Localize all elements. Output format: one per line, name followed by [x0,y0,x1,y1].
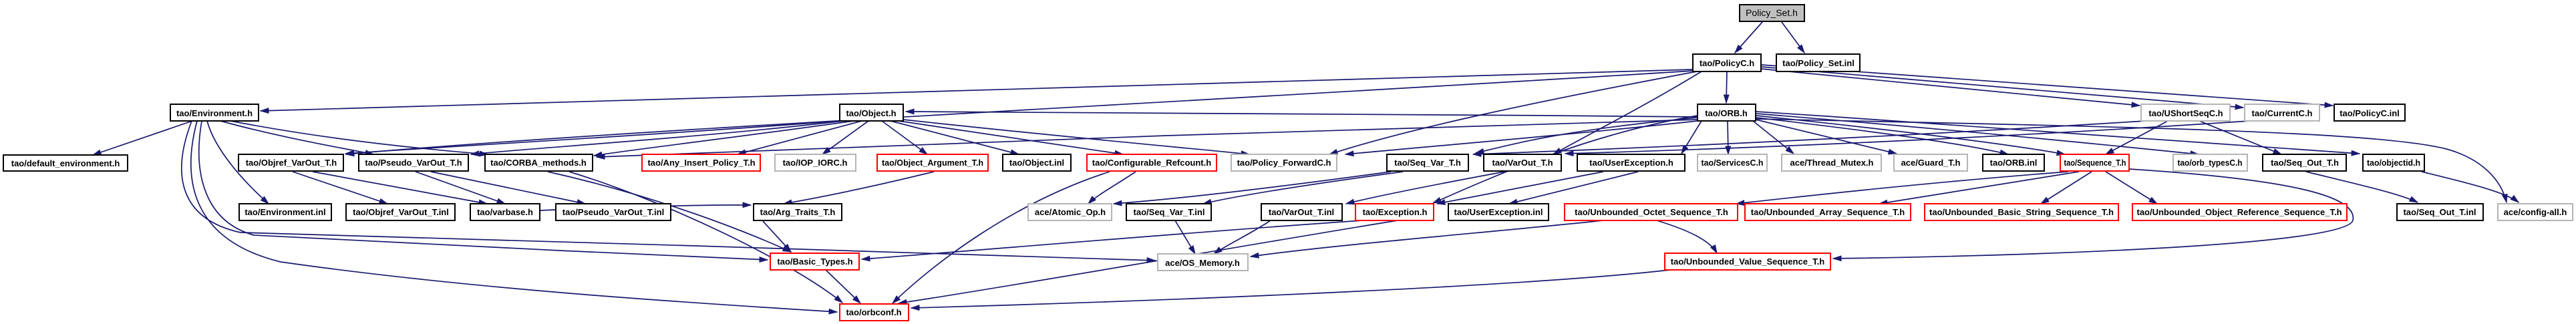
svg-text:tao/Exception.h: tao/Exception.h [1363,207,1428,217]
edge tao/UShortSeqC.h -> tao/Sequence_T.h [2106,121,2168,154]
svg-text:tao/VarOut_T.h: tao/VarOut_T.h [1492,158,1553,168]
svg-text:tao/Seq_Out_T.inl: tao/Seq_Out_T.inl [2403,207,2476,217]
svg-text:tao/Objref_VarOut_T.inl: tao/Objref_VarOut_T.inl [353,207,449,217]
edge tao/ORB.h -> ace/Thread_Mutex.h [1753,121,1794,154]
edge tao/Sequence_T.h -> tao/Unbounded_Basic_String_Sequence_T.h [2041,172,2092,204]
svg-text:tao/Objref_VarOut_T.h: tao/Objref_VarOut_T.h [246,158,337,168]
edge tao/UShortSeqC.h -> tao/Seq_Var_T.h [1473,121,2146,154]
svg-text:tao/Environment.inl: tao/Environment.inl [245,207,325,217]
edge tao/ORB.h -> tao/CORBA_methods.h [597,120,1698,157]
edge tao/Object.h -> tao/Object.inl [891,121,1019,154]
node tao/Seq_Var_T.h [1387,154,1468,171]
edge tao/Pseudo_VarOut_T.h -> tao/Pseudo_VarOut_T.inl [431,172,585,204]
edge tao/Objref_VarOut_T.h -> tao/Objref_VarOut_T.inl [293,172,387,204]
node tao/Object.h [840,104,903,121]
svg-text:tao/VarOut_T.inl: tao/VarOut_T.inl [1269,207,1334,217]
svg-text:tao/Unbounded_Octet_Sequence_T: tao/Unbounded_Octet_Sequence_T.h [1575,207,1728,217]
edge tao/Configurable_Refcount.h -> tao/orbconf.h [893,172,1110,303]
edge tao/PolicyC.h -> tao/CurrentC.h [1761,67,2243,108]
svg-text:tao/Unbounded_Value_Sequence_T: tao/Unbounded_Value_Sequence_T.h [1671,257,1824,267]
svg-text:tao/default_environment.h: tao/default_environment.h [11,158,120,168]
edge tao/ORB.h -> tao/Object.h [906,112,1698,117]
edge tao/Sequence_T.h -> tao/Unbounded_Object_Reference_Sequence_T.h [2106,172,2157,204]
node tao/VarOut_T.inl [1261,204,1342,220]
node tao/objectid.h [2363,154,2424,171]
edge tao/CurrentC.h -> tao/VarOut_T.h [1565,121,2250,154]
svg-text:tao/Object.inl: tao/Object.inl [1009,158,1064,168]
svg-text:tao/IOP_IORC.h: tao/IOP_IORC.h [783,158,848,168]
edge tao/PolicyC.h -> tao/PolicyC.inl [1761,65,2333,106]
svg-text:Policy_Set.h: Policy_Set.h [1746,7,1798,18]
edge tao/Seq_Out_T.h -> tao/Seq_Out_T.inl [2306,172,2418,202]
edge tao/Seq_Var_T.h -> ace/Atomic_Op.h [1114,172,1391,204]
edge tao/Unbounded_Octet_Sequence_T.h -> ace/OS_Memory.h [1251,220,1603,257]
node tao/Seq_Out_T.h [2263,154,2346,171]
node ace/config-all.h [2498,204,2573,220]
edge tao/ORB.h -> tao/Policy_ForwardC.h [1345,121,1698,154]
svg-text:ace/Atomic_Op.h: ace/Atomic_Op.h [1035,207,1106,217]
svg-text:tao/CurrentC.h: tao/CurrentC.h [2252,108,2313,118]
edge tao/Pseudo_VarOut_T.h -> tao/varbase.h [416,172,505,204]
svg-text:tao/PolicyC.h: tao/PolicyC.h [1700,58,1754,68]
edge tao/objectid.h -> ace/config-all.h [2422,172,2519,202]
node tao/PolicyC.h [1693,54,1761,71]
node ace/OS_Memory.h [1158,254,1248,271]
edge tao/ORB.h -> ace/config-all.h [1756,119,2507,202]
edge tao/Seq_Var_T.inl -> ace/OS_Memory.h [1175,220,1195,254]
edge tao/Objref_VarOut_T.h -> tao/varbase.h [313,172,487,204]
edge tao/Environment.h -> tao/Pseudo_VarOut_T.h [220,121,373,154]
edge tao/Environment.h -> tao/default_environment.h [93,121,192,155]
svg-text:tao/UserException.inl: tao/UserException.inl [1454,207,1543,217]
node tao/Configurable_Refcount.h [1087,154,1217,171]
node ace/Atomic_Op.h [1028,204,1112,220]
edge tao/Sequence_T.h -> tao/Unbounded_Array_Sequence_T.h [1879,172,2079,204]
svg-text:tao/Object_Argument_T.h: tao/Object_Argument_T.h [882,158,983,168]
edge tao/ORB.h -> tao/Sequence_T.h [1756,116,2065,154]
edge tao/Exception.h -> tao/Basic_Types.h [862,220,1363,259]
node tao/Policy_Set.inl [1776,54,1860,71]
node tao/Unbounded_Octet_Sequence_T.h [1565,204,1738,220]
node tao/Environment.inl [239,204,331,220]
node tao/CORBA_methods.h [485,154,593,171]
svg-text:tao/objectid.h: tao/objectid.h [2367,158,2420,168]
node tao/default_environment.h [3,155,128,171]
edge tao/Unbounded_Octet_Sequence_T.h -> tao/Unbounded_Value_Sequence_T.h [1657,220,1717,253]
edge tao/PolicyC.h -> tao/ORB.h [1726,71,1727,103]
node tao/ORB.h [1698,104,1756,121]
svg-text:tao/Seq_Out_T.h: tao/Seq_Out_T.h [2271,158,2339,168]
edge tao/varbase.h -> tao/Arg_Traits_T.h [540,205,751,210]
edge tao/ORB.h -> ace/Guard_T.h [1756,120,1897,154]
svg-text:tao/Unbounded_Basic_String_Seq: tao/Unbounded_Basic_String_Sequence_T.h [1929,207,2114,217]
node tao/Unbounded_Value_Sequence_T.h [1665,253,1830,270]
edge tao/VarOut_T.inl -> ace/OS_Memory.h [1214,220,1271,254]
edge tao/ORB.h -> tao/orb_typesC.h [1756,114,2199,154]
svg-text:tao/Configurable_Refcount.h: tao/Configurable_Refcount.h [1092,158,1211,168]
svg-text:tao/Environment.h: tao/Environment.h [176,108,253,118]
node tao/varbase.h [470,204,540,220]
node tao/Seq_Out_T.inl [2397,204,2483,220]
edge tao/Arg_Traits_T.h -> tao/Basic_Types.h [763,221,791,252]
edge tao/Exception.h -> tao/orbconf.h [899,220,1398,303]
svg-text:tao/Unbounded_Array_Sequence_T: tao/Unbounded_Array_Sequence_T.h [1751,207,1905,217]
edge tao/ORB.h -> tao/Exception.h [1433,116,1698,203]
node tao/Unbounded_Array_Sequence_T.h [1745,204,1911,220]
edge tao/UShortSeqC.h -> tao/Seq_Out_T.h [2199,121,2281,154]
edge tao/Object.h -> tao/Object_Argument_T.h [882,121,927,154]
edge tao/Environment.h -> tao/orbconf.h [191,121,837,312]
edge tao/Basic_Types.h -> tao/orbconf.h [826,270,860,303]
svg-text:tao/CORBA_methods.h: tao/CORBA_methods.h [490,158,587,168]
edge tao/Object.h -> tao/Configurable_Refcount.h [899,121,1123,154]
edge tao/PolicyC.h -> tao/Policy_ForwardC.h [1329,71,1697,154]
node tao/CurrentC.h [2245,104,2319,121]
edge tao/Object.h -> tao/CORBA_methods.h [594,121,854,156]
edge tao/Environment.h -> tao/Environment.inl [207,121,269,204]
edge tao/Unbounded_Value_Sequence_T.h -> tao/orbconf.h [911,270,1670,308]
edge tao/Object.h -> tao/Any_Insert_Policy_T.h [738,121,862,154]
node tao/Sequence_T.h [2060,154,2129,171]
node tao/Object.inl [1003,154,1071,171]
node Policy_Set.h (root) [1740,5,1804,21]
edge tao/Sequence_T.h -> tao/Unbounded_Value_Sequence_T.h [1833,169,2353,259]
node tao/Object_Argument_T.h [877,154,988,171]
edge tao/PolicyC.h -> tao/UShortSeqC.h [1761,69,2140,106]
edge tao/Object.h -> tao/Pseudo_VarOut_T.h [471,121,844,154]
node tao/Objref_VarOut_T.inl [346,204,455,220]
node tao/Unbounded_Object_Reference_Sequence_T.h [2132,204,2347,220]
node tao/UserException.inl [1448,204,1549,220]
svg-text:tao/orbconf.h: tao/orbconf.h [846,307,901,317]
node tao/Basic_Types.h [770,253,859,270]
node tao/Exception.h [1355,204,1434,220]
svg-text:tao/Any_Insert_Policy_T.h: tao/Any_Insert_Policy_T.h [647,158,755,168]
svg-text:tao/varbase.h: tao/varbase.h [477,207,533,217]
node tao/Pseudo_VarOut_T.h [359,154,468,171]
svg-text:tao/UShortSeqC.h: tao/UShortSeqC.h [2148,108,2223,118]
node tao/orbconf.h [840,304,909,321]
svg-text:tao/UserException.h: tao/UserException.h [1589,158,1673,168]
svg-text:tao/Policy_ForwardC.h: tao/Policy_ForwardC.h [1237,158,1331,168]
svg-text:tao/Basic_Types.h: tao/Basic_Types.h [777,257,852,267]
edge tao/PolicyC.h -> tao/Objref_VarOut_T.h [346,71,1693,154]
svg-text:tao/Seq_Var_T.inl: tao/Seq_Var_T.inl [1134,207,1205,217]
svg-text:tao/orb_typesC.h: tao/orb_typesC.h [2178,158,2243,168]
svg-text:tao/Object.h: tao/Object.h [846,108,896,118]
svg-text:ace/Guard_T.h: ace/Guard_T.h [1901,158,1961,168]
node tao/UShortSeqC.h [2141,104,2230,121]
svg-text:tao/ORB.inl: tao/ORB.inl [1990,158,2038,168]
node tao/orb_typesC.h [2173,154,2247,171]
svg-text:tao/PolicyC.inl: tao/PolicyC.inl [2340,108,2400,118]
svg-text:ace/OS_Memory.h: ace/OS_Memory.h [1165,258,1240,268]
edge tao/ORB.h -> tao/Seq_Var_T.h [1476,118,1698,153]
svg-text:tao/ORB.h: tao/ORB.h [1705,108,1748,118]
node tao/ORB.inl [1983,154,2044,171]
edge tao/Object.h -> tao/Policy_ForwardC.h [903,120,1249,154]
edge tao/Configurable_Refcount.h -> ace/Atomic_Op.h [1088,172,1136,204]
edge tao/Environment.h -> tao/CORBA_methods.h [230,121,488,154]
edge tao/CORBA_methods.h -> tao/orbconf.h [569,172,842,303]
node tao/Unbounded_Basic_String_Sequence_T.h [1925,204,2118,220]
node tao/Environment.h [170,104,259,121]
node tao/VarOut_T.h [1484,154,1561,171]
svg-text:tao/ServicesC.h: tao/ServicesC.h [1702,158,1764,168]
edge tao/VarOut_T.h -> tao/VarOut_T.inl [1346,172,1504,204]
edge tao/ORB.h -> tao/UserException.h [1681,121,1702,154]
node tao/Any_Insert_Policy_T.h [642,154,760,171]
edge tao/Object_Argument_T.h -> tao/Arg_Traits_T.h [784,172,934,204]
svg-text:ace/Thread_Mutex.h: ace/Thread_Mutex.h [1790,158,1874,168]
node tao/Arg_Traits_T.h [754,204,842,220]
node ace/Guard_T.h [1894,154,1967,171]
edge tao/UserException.h -> tao/Exception.h [1437,172,1603,204]
edge tao/PolicyC.h -> tao/VarOut_T.h [1553,71,1702,154]
svg-text:tao/Pseudo_VarOut_T.h: tao/Pseudo_VarOut_T.h [365,158,462,168]
edge Policy_Set.h -> tao/PolicyC.h [1735,22,1762,53]
edge tao/Environment.h -> ace/OS_Memory.h [182,121,1155,261]
node tao/ServicesC.h [1698,154,1767,171]
node ace/Thread_Mutex.h [1782,154,1881,171]
edge tao/Object.h -> tao/Objref_VarOut_T.h [345,121,840,154]
node tao/PolicyC.inl [2334,104,2405,121]
node tao/Objref_VarOut_T.h [238,154,343,171]
svg-text:tao/Policy_Set.inl: tao/Policy_Set.inl [1782,58,1855,68]
edge tao/Seq_Var_T.h -> tao/Seq_Var_T.inl [1203,172,1403,204]
node tao/Seq_Var_T.inl [1126,204,1211,220]
node tao/UserException.h [1577,154,1685,171]
edge tao/Environment.h -> tao/Basic_Types.h [199,121,768,260]
node tao/Pseudo_VarOut_T.inl [556,204,671,220]
edge tao/ORB.h -> tao/ServicesC.h [1728,121,1728,154]
svg-text:tao/Arg_Traits_T.h: tao/Arg_Traits_T.h [760,207,836,217]
svg-text:tao/Seq_Var_T.h: tao/Seq_Var_T.h [1394,158,1461,168]
edge tao/ORB.h -> tao/objectid.h [1756,112,2360,154]
edge Policy_Set.h -> tao/Policy_Set.inl [1782,22,1804,53]
edge tao/ORB.h -> tao/ORB.inl [1756,118,2008,154]
svg-text:tao/Sequence_T.h: tao/Sequence_T.h [2064,158,2126,168]
svg-text:tao/Pseudo_VarOut_T.inl: tao/Pseudo_VarOut_T.inl [562,207,664,217]
svg-text:ace/config-all.h: ace/config-all.h [2504,207,2567,217]
svg-text:tao/Unbounded_Object_Reference: tao/Unbounded_Object_Reference_Sequence_… [2136,207,2342,217]
edge tao/Sequence_T.h -> tao/Unbounded_Octet_Sequence_T.h [1736,172,2068,204]
edge tao/Object.h -> tao/IOP_IORC.h [822,121,868,154]
node tao/IOP_IORC.h [775,154,856,171]
edge tao/CORBA_methods.h -> tao/Basic_Types.h [548,172,791,252]
edge tao/UserException.h -> tao/UserException.inl [1509,172,1638,204]
edge tao/PolicyC.h -> tao/Environment.h [261,69,1693,111]
node tao/Policy_ForwardC.h [1231,154,1337,171]
